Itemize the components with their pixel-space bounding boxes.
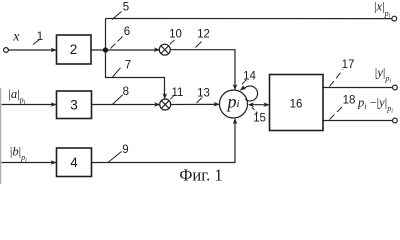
- label 15: [253, 112, 266, 124]
- input terminal x: [4, 48, 9, 53]
- svg-text:8: 8: [123, 86, 129, 98]
- label x: [12, 30, 20, 45]
- wire 1: x input to block 2: [9, 48, 57, 53]
- label 17 leader: [330, 70, 344, 87]
- svg-text:1: 1: [37, 31, 43, 43]
- wire 12: multiplier 10 to top of summing node: [170, 50, 237, 91]
- block 2: [57, 35, 92, 64]
- summing node pi: [220, 90, 248, 118]
- scan border left edge: [0, 88, 2, 184]
- wire 15: bidirectional link node to block 16: [248, 102, 270, 107]
- label 18 leader: [330, 106, 344, 120]
- label |a|pi: [8, 87, 25, 106]
- label 10: [169, 28, 182, 40]
- output terminal |y|: [393, 85, 398, 90]
- label 14: [243, 71, 256, 83]
- label 15 leader: [252, 107, 258, 113]
- wire 17: block 16 to |y| output terminal: [323, 87, 393, 89]
- label pi-|y|pi: [357, 96, 393, 115]
- wire: block 2 output to multiplier 10: [91, 47, 160, 52]
- label |b|pi: [10, 144, 27, 163]
- label 13: [197, 88, 210, 100]
- wire 5: top line to output terminal: [106, 18, 393, 20]
- svg-text:5: 5: [123, 2, 129, 14]
- multiplier 10: [159, 44, 170, 55]
- label 1 leader: [33, 40, 39, 45]
- svg-text:11: 11: [172, 87, 184, 99]
- svg-text:14: 14: [243, 71, 256, 83]
- svg-text:4: 4: [70, 155, 78, 170]
- block 16: [270, 75, 324, 131]
- label 13 leader: [197, 98, 203, 104]
- label 9: [122, 144, 128, 156]
- label 12: [197, 28, 210, 40]
- block 3: [57, 91, 92, 119]
- label 17: [342, 59, 355, 71]
- label 7 leader: [113, 68, 121, 77]
- svg-text:16: 16: [290, 99, 303, 111]
- label 8: [123, 86, 129, 98]
- wire 13: multiplier 11 to summing node: [171, 102, 220, 107]
- svg-text:9: 9: [122, 144, 128, 156]
- label 11 leader: [170, 95, 175, 100]
- label 1: [37, 31, 43, 43]
- output terminal |x|: [392, 16, 397, 21]
- label 18: [343, 94, 356, 106]
- wire 9: block 4 feedback up into node bottom: [92, 118, 238, 163]
- wire 18: block 16 to pi-|y| output terminal: [323, 120, 393, 122]
- node junction after block 2: [103, 47, 108, 52]
- wire 5 riser: junction up: [105, 19, 107, 51]
- self-loop 14: [240, 86, 258, 101]
- label 6 leader: [111, 36, 124, 49]
- svg-text:3: 3: [70, 97, 78, 112]
- block 4: [57, 148, 92, 177]
- label 5: [123, 2, 129, 14]
- label 6: [124, 26, 130, 38]
- svg-text:13: 13: [197, 88, 210, 100]
- label |y|pi: [375, 66, 392, 85]
- svg-text:15: 15: [253, 112, 266, 124]
- svg-text:17: 17: [342, 59, 355, 71]
- svg-text:10: 10: [169, 28, 182, 40]
- svg-text:2: 2: [70, 42, 78, 57]
- wire 7: junction down, over and down to multiplier 11: [106, 50, 168, 99]
- label 9 leader: [109, 152, 122, 163]
- svg-text:12: 12: [197, 28, 210, 40]
- svg-text:Фиг. 1: Фиг. 1: [179, 166, 222, 185]
- wire: a input to block 3: [2, 102, 57, 107]
- wire: b input to block 4: [2, 160, 57, 165]
- multiplier 11: [160, 99, 171, 110]
- label 8 leader: [113, 95, 123, 104]
- label 10 leader: [170, 40, 175, 45]
- wire 8: block 3 to multiplier 11: [92, 102, 161, 107]
- label |x|pi: [374, 0, 391, 19]
- label 7: [125, 59, 131, 71]
- svg-text:x: x: [12, 30, 20, 45]
- label 11: [172, 87, 184, 99]
- label 5 leader: [112, 12, 122, 20]
- svg-text:18: 18: [343, 94, 356, 106]
- label 14 leader: [242, 80, 247, 85]
- svg-text:7: 7: [125, 59, 131, 71]
- output terminal pi-|y|: [393, 118, 398, 123]
- caption Fig 1: [179, 166, 222, 185]
- label 12 leader: [196, 42, 202, 48]
- svg-text:6: 6: [124, 26, 130, 38]
